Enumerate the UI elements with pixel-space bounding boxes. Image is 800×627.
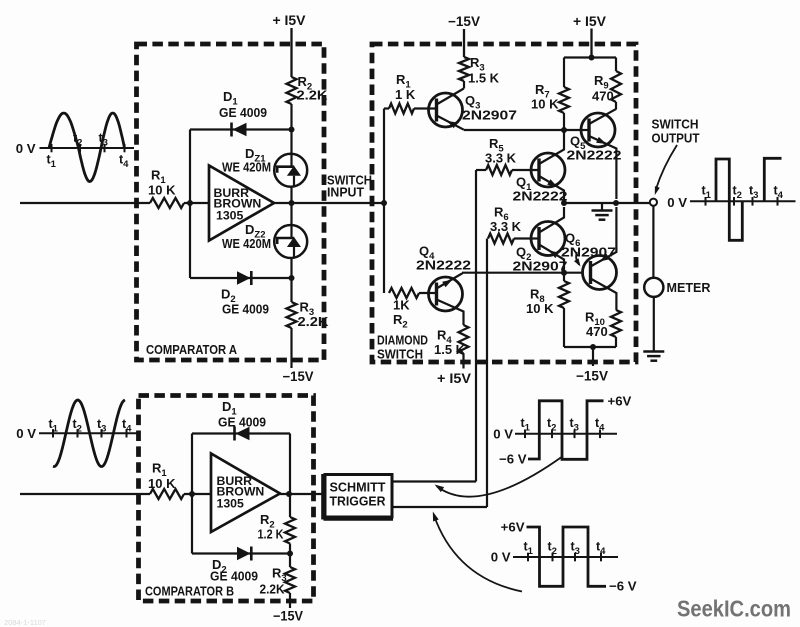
input waveform A axis [40,147,135,149]
diode D2 comparator B [237,547,251,560]
svg-text:0 V: 0 V [493,427,513,442]
resistor R1 comparator B [150,489,184,499]
node -15V bottom junction [590,344,596,350]
transistor Q1 2N2222 [531,153,565,187]
op-amp U1 comparator A BURR BROWN 1305 [209,166,274,241]
svg-text:1.5 K: 1.5 K [434,342,466,357]
svg-text:10 K: 10 K [148,183,176,198]
svg-text:SCHMITT: SCHMITT [330,480,386,495]
svg-text:1.5 K: 1.5 K [468,71,500,86]
svg-text:SeekIC.com: SeekIC.com [677,596,791,622]
wire D2 feedback bottom [190,277,292,279]
node comparator B input [189,491,195,497]
square wave B axis [513,556,618,558]
wire D1 feedback top B [192,432,290,434]
node diamond switch input [381,200,387,206]
svg-text:+ I5V: + I5V [437,371,471,386]
wire vertical to R6 [486,239,488,508]
wire feedback vertical comparator A [189,130,191,279]
node comparator B output [286,491,292,497]
svg-text:GE 4009: GE 4009 [219,105,267,120]
svg-text:2N2907: 2N2907 [513,259,568,274]
svg-text:DIAMOND: DIAMOND [377,334,428,348]
transistor Q5 2N2222 [581,113,615,147]
resistor R10 470 [611,310,621,337]
svg-text:−6 V: −6 V [499,452,527,467]
wire Q4 emitter to Q6 base node [462,272,582,274]
svg-text:+6V: +6V [501,520,525,535]
wire feedback vertical comparator B [191,434,193,554]
svg-text:−15V: −15V [576,369,608,384]
comparator A dashed box [137,44,325,360]
output waveform axis [690,200,796,202]
wire vertical to R5 [475,170,477,482]
output pulse waveform [716,159,742,240]
svg-text:METER: METER [667,281,711,295]
zener diode DZ2 WE420M [274,225,307,258]
schmitt trigger box [325,475,392,518]
arrow square wave A to schmitt top wire [437,456,563,497]
wire R3B to -15V [289,593,291,608]
svg-text:GE 4009: GE 4009 [222,302,269,317]
svg-text:1305: 1305 [217,497,245,511]
resistor R1 diamond 1K [389,104,414,114]
resistor R7 10K [563,58,565,88]
svg-text:−15V: −15V [283,369,314,384]
resistor R1 comparator A [150,198,184,208]
svg-text:2N2222: 2N2222 [513,189,568,204]
wire op-amp A output to diamond switch [274,202,384,204]
arrow square wave B to schmitt bottom wire [434,515,522,592]
switch output pointer arrow [656,145,677,189]
transistor Q6 2N2907 [583,256,617,290]
Q6 label pointer arrow [576,252,579,265]
svg-text:2N2907: 2N2907 [561,245,616,260]
node D2-R3 junction [289,275,295,281]
node comparator A output [289,200,295,206]
wire R2 to node [290,104,292,302]
svg-text:0 V: 0 V [16,141,36,156]
transistor Q4 2N2222 [429,277,463,311]
wire bottom -15V bar [564,346,616,348]
resistor R3 diamond 1.5K [463,29,465,57]
square wave B trace [527,527,607,586]
svg-text:0 V: 0 V [667,195,687,210]
svg-text:1K: 1K [393,298,410,313]
node rail left [561,200,567,206]
wire input line A [20,202,150,204]
svg-text:1305: 1305 [216,209,244,223]
node comparator A input [187,200,193,206]
svg-text:−15V: −15V [448,14,480,29]
resistor R3 comparator A [287,302,297,328]
svg-text:3.3 K: 3.3 K [485,151,517,166]
node Q6 base junction [561,270,567,276]
wire schmitt output top [392,480,476,482]
wire R4 to +15V [462,354,464,369]
svg-text:0 V: 0 V [491,550,511,565]
svg-text:COMPARATOR B: COMPARATOR B [145,584,234,599]
svg-text:SWITCH: SWITCH [377,348,423,362]
wire meter to ground [653,297,655,352]
svg-text:GE 4009: GE 4009 [218,415,266,430]
input sine wave B [53,400,125,467]
wire input line B [20,493,150,495]
resistor R2 comparator B [285,517,295,544]
comparator B dashed box [139,396,314,602]
resistor R4 1.5K [459,325,469,354]
wire diamond input vertical [383,109,385,294]
wire output rail [564,202,649,204]
resistor R3 comparator B [285,567,295,593]
node +15V tee [589,55,595,61]
input waveform B axis [39,432,138,434]
transistor Q3 2N2907 [429,93,463,127]
diode D2 comparator A [237,271,251,284]
wire op-amp B output [280,493,325,495]
wire D1 feedback top [190,128,292,130]
node D1-R2 junction [289,127,295,133]
resistor R6 3.3K [488,234,514,244]
wire D2 feedback bottom B [192,552,290,554]
svg-text:TRIGGER: TRIGGER [330,494,386,509]
diode D1 comparator B [236,427,250,440]
svg-text:1.2 K: 1.2 K [258,527,285,542]
svg-text:2084-1-1107: 2084-1-1107 [4,618,46,627]
svg-text:−6 V: −6 V [609,579,637,594]
svg-text:+6V: +6V [608,394,632,409]
svg-text:GE 4009: GE 4009 [210,569,258,584]
svg-text:SWITCH: SWITCH [652,118,699,132]
wire +15V rail bar [564,56,616,58]
svg-text:470: 470 [592,89,614,104]
resistor R8 10K [563,273,565,281]
svg-text:WE 420M: WE 420M [222,161,271,175]
square wave A trace [528,401,604,460]
diamond switch dashed box [372,44,636,362]
svg-text:1 K: 1 K [395,87,416,102]
wire R3 to -15V [290,328,292,368]
node rail right [613,200,619,206]
wire Q3 emitter to Q5 base node [464,129,581,131]
input sine wave A [49,113,125,181]
wire output to R2 chain [289,434,291,518]
ground symbol diamond [601,203,603,211]
svg-text:2N2907: 2N2907 [462,108,517,123]
resistor R9 470 [615,58,617,72]
svg-text:10 K: 10 K [148,476,176,491]
wire terminal to meter [652,206,654,278]
svg-text:2.2K: 2.2K [298,314,330,329]
zener diode DZ1 WE420M [274,154,307,187]
node D2-R3 junction B [287,551,293,557]
node Q5 base junction [561,127,567,133]
wire R1B to op-amp [184,493,212,495]
wire schmitt output bottom [392,506,487,508]
op-amp U2 comparator B BURR BROWN 1305 [211,454,280,533]
diode D1 comparator A [233,123,247,136]
resistor R2 diamond 1K [389,288,419,298]
svg-text:470: 470 [586,324,608,339]
switch output terminal [650,199,657,206]
svg-text:2.2K: 2.2K [297,88,329,103]
svg-text:WE 420M: WE 420M [222,237,271,251]
transistor Q2 2N2907 [531,222,565,256]
resistor R2 comparator A [287,77,297,104]
square wave A axis [515,433,617,435]
svg-text:0 V: 0 V [16,426,36,441]
svg-text:2N2222: 2N2222 [567,148,622,163]
resistor R5 3.3K [486,165,512,175]
svg-text:10 K: 10 K [526,301,554,316]
svg-text:OUTPUT: OUTPUT [652,132,700,146]
svg-text:−15V: −15V [273,609,303,624]
svg-text:2.2K: 2.2K [260,582,286,597]
svg-text:3.3 K: 3.3 K [490,219,522,234]
svg-text:2N2222: 2N2222 [416,258,471,273]
svg-text:+ I5V: + I5V [273,13,306,28]
ground symbol under meter [643,350,664,353]
svg-text:COMPARATOR A: COMPARATOR A [146,342,238,357]
meter M1 [644,278,663,297]
svg-text:10 K: 10 K [531,97,559,112]
wire R1 to op-amp [184,202,210,204]
svg-text:+ I5V: + I5V [573,14,606,29]
svg-text:INPUT: INPUT [327,186,364,200]
